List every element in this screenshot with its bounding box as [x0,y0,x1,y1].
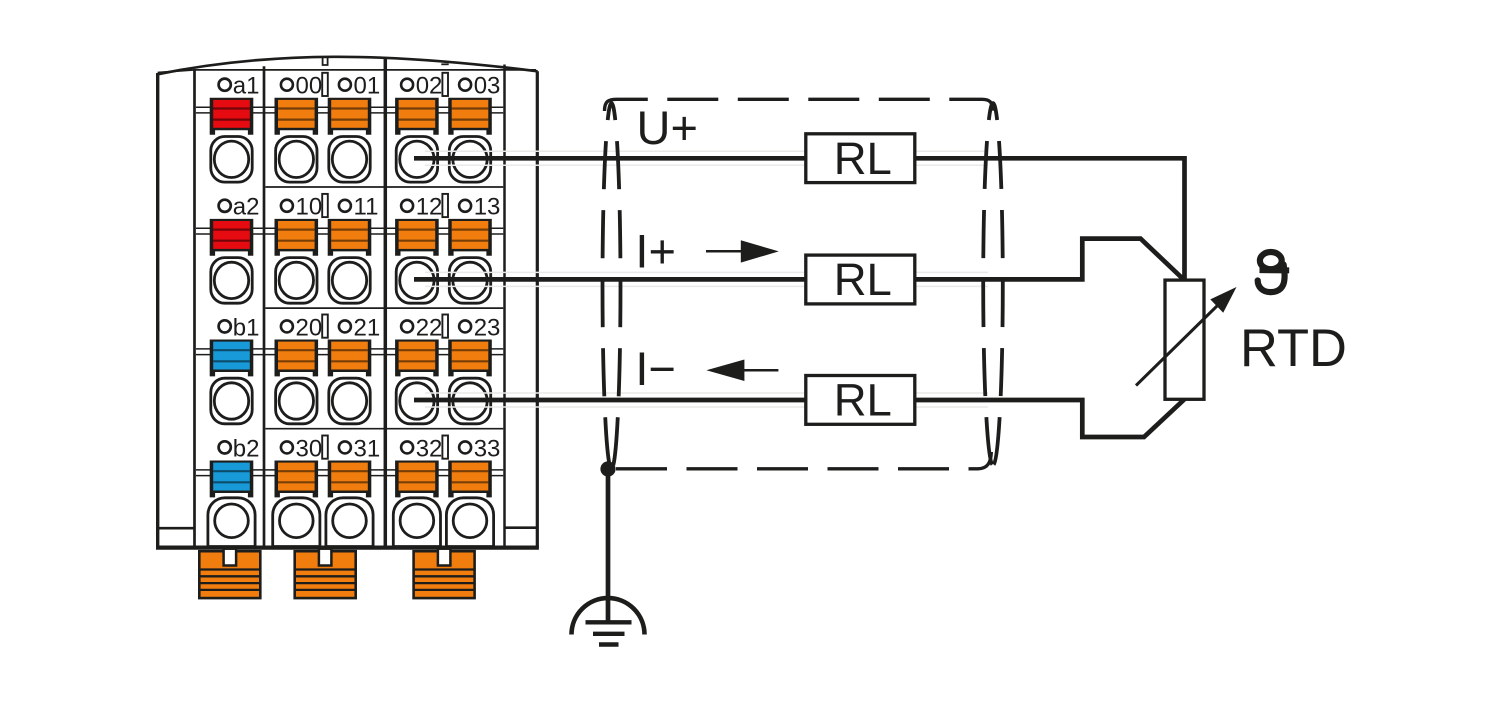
svg-text:a1: a1 [233,73,260,100]
svg-text:b2: b2 [233,435,260,462]
svg-text:RL: RL [834,375,892,426]
lever a1 [210,98,254,135]
terminal hole 11 [329,258,370,304]
svg-text:U+: U+ [637,101,698,154]
temperature symbol theta [1258,252,1290,292]
label a2 [219,200,231,212]
lever 32 [395,461,439,498]
svg-text:23: 23 [474,314,501,341]
lever 22 [395,340,439,377]
resistor RL2 (cable resistance) [806,254,915,305]
module column separators [195,59,505,548]
lever a2 [210,219,254,256]
labels 10 | 11 [281,200,293,212]
svg-text:I+: I+ [635,224,676,277]
svg-text:32: 32 [416,435,443,462]
lever b2 [210,461,254,498]
terminal hole 10 [276,258,317,304]
shield drain wire [606,469,611,622]
junction node (shield to earth) [600,461,615,476]
lever 12 [395,219,439,256]
labels 02 | 03 [401,79,413,91]
RTD resistor body [1165,280,1204,399]
svg-text:03: 03 [474,73,501,100]
svg-text:22: 22 [416,314,443,341]
label b1 [219,320,231,332]
foot connector [295,549,356,598]
ground (earth) symbol [572,598,645,644]
lever 30 [275,461,319,498]
terminal hole 21 [329,378,370,424]
module terminal labels [219,73,501,463]
terminal hole 03 [449,137,490,183]
lever 03 [448,98,492,135]
terminal hole 20 [276,378,317,424]
labels 00 | 01 [281,79,293,91]
svg-text:RL: RL [834,133,892,184]
current arrow I- (left) [706,360,778,382]
terminal hole 01 [329,137,370,183]
svg-text:00: 00 [296,73,323,100]
terminal hole b2 [208,498,255,547]
svg-text:12: 12 [416,194,443,221]
terminal hole 00 [276,137,317,183]
lever 20 [275,340,319,377]
terminal hole 23 [449,378,490,424]
terminal hole a1 [211,137,252,183]
shield ellipse left [603,103,621,469]
terminal hole 12 [396,258,437,304]
svg-text:31: 31 [354,435,381,462]
terminal hole a2 [211,258,252,304]
foot connector [199,549,260,598]
svg-text:01: 01 [354,73,381,100]
resistor RL3 (cable resistance) [806,375,915,426]
lever 02 [395,98,439,135]
RTD variability arrow [1136,287,1237,386]
lever 00 [275,98,319,135]
wire halo lines [425,151,988,407]
thin guide lines across rows [196,107,503,475]
svg-text:RTD: RTD [1240,319,1347,378]
labels 30 | 31 [281,441,293,453]
labels 20 | 21 [281,320,293,332]
lever 21 [328,340,372,377]
wire U+ : terminal 02 to RTD [414,158,1185,279]
resistor RL1 (cable resistance) [806,133,915,184]
lever 10 [275,219,319,256]
svg-text:I−: I− [635,342,676,395]
terminal hole b1 [211,378,252,424]
labels 12 | 13 [401,200,413,212]
current arrow I+ (right) [706,240,779,262]
svg-text:10: 10 [296,194,323,221]
labels 32 | 33 [401,441,413,453]
lever 01 [328,98,372,135]
terminal hole 31 [326,498,373,547]
terminal hole 02 [396,137,437,183]
label a1 [219,79,231,91]
wire I- : terminal 22 to RTD [414,399,1185,437]
labels 22 | 23 [401,320,413,332]
lever b1 [210,340,254,377]
svg-text:b1: b1 [233,314,260,341]
label b2 [219,441,231,453]
svg-text:20: 20 [296,314,323,341]
lever 11 [328,219,372,256]
lever 13 [448,219,492,256]
lever 23 [448,340,492,377]
wire I+ : terminal 12 to RTD [414,239,1185,281]
shield ellipse right [983,103,1003,465]
cable shield dashed boundary [605,99,993,469]
svg-text:13: 13 [474,194,501,221]
svg-text:21: 21 [354,314,381,341]
row separator lines [265,187,503,429]
lever 33 [448,461,492,498]
foot connector [414,549,475,598]
terminal hole 32 [393,498,440,547]
terminal hole 30 [273,498,320,547]
svg-text:33: 33 [474,435,501,462]
terminal hole 33 [446,498,493,547]
terminal hole 22 [396,378,437,424]
svg-text:30: 30 [296,435,323,462]
svg-text:a2: a2 [233,194,260,221]
svg-text:11: 11 [354,194,379,221]
lever 31 [328,461,372,498]
terminal hole 13 [449,258,490,304]
terminal module shell [156,57,539,548]
svg-text:RL: RL [834,254,892,305]
svg-text:02: 02 [416,73,443,100]
